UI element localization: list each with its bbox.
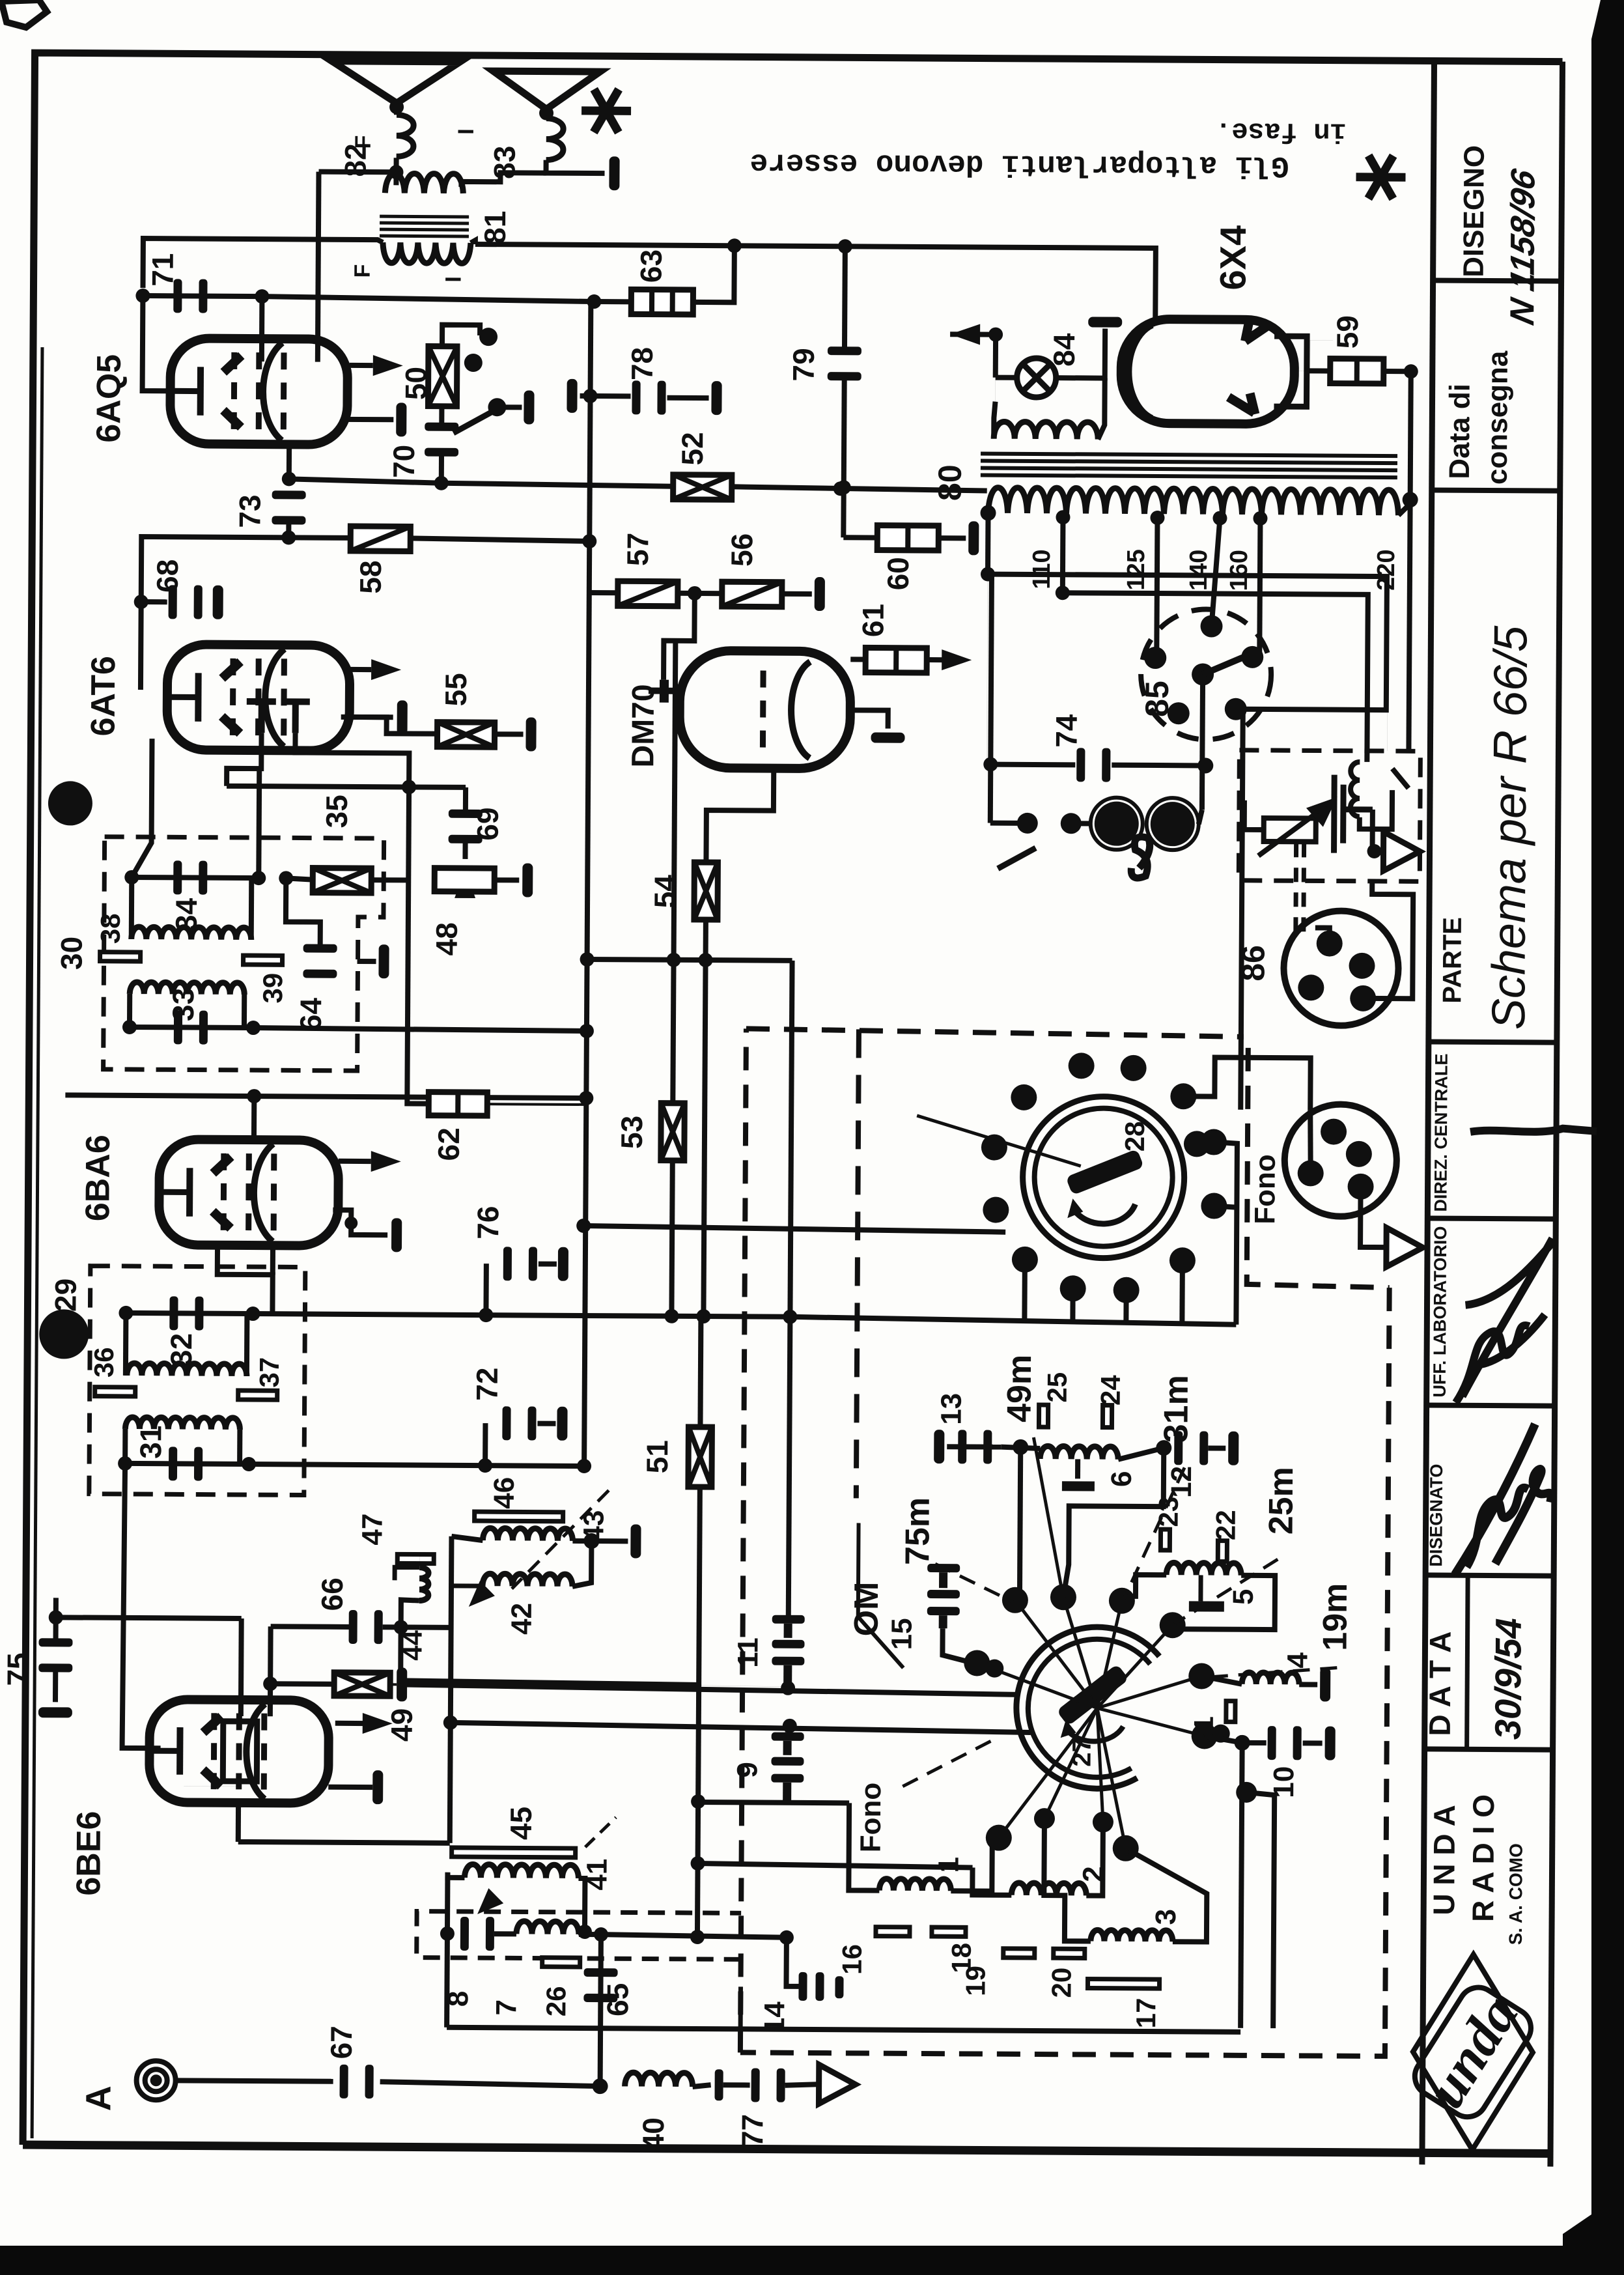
svg-text:55: 55 [439, 673, 473, 706]
voltage selector 85 [1141, 609, 1272, 740]
resistor 49 [334, 1673, 390, 1696]
wire [333, 1210, 387, 1235]
wire [141, 599, 167, 604]
mains plug pin 1 [1091, 797, 1143, 849]
svg-text:54: 54 [648, 875, 682, 909]
wire [286, 878, 321, 948]
wire [1387, 576, 1388, 751]
junction [577, 1459, 591, 1473]
wire [350, 717, 438, 734]
svg-text:58: 58 [354, 560, 387, 593]
svg-text:9: 9 [731, 1762, 763, 1778]
svg-text:73: 73 [232, 494, 266, 528]
wire [249, 1464, 584, 1466]
junction [282, 472, 296, 486]
wire tap 160 [1259, 518, 1260, 656]
capacitor 68 [169, 585, 203, 619]
svg-text:19: 19 [960, 1966, 990, 1996]
coil 5 [1166, 1562, 1241, 1576]
wire [1063, 1447, 1164, 1598]
switch 27 arrow [1066, 1726, 1123, 1742]
wire [407, 1030, 429, 1103]
svg-text:U N D A: U N D A [1427, 1805, 1461, 1915]
wire [288, 535, 350, 541]
wire [400, 1627, 700, 1685]
wire diode 1 [227, 733, 261, 786]
ground res 49 [397, 1667, 407, 1701]
socket Fono upper [1284, 1104, 1397, 1217]
inner dashed divider [856, 1029, 859, 1498]
resistor 56 [722, 582, 782, 607]
wire [994, 402, 995, 439]
wire [126, 1313, 253, 1314]
wire [463, 787, 468, 812]
coil 44 [419, 1568, 428, 1601]
resistor 63 [631, 289, 693, 315]
mains plug pin 2 [1147, 798, 1199, 850]
svg-text:75: 75 [1, 1652, 35, 1686]
contact 27 [1160, 1612, 1186, 1638]
wire [706, 768, 774, 863]
wire [539, 1262, 557, 1267]
wire [698, 1863, 973, 1867]
wire 6AQ5 plate lead [318, 172, 319, 362]
title cell divider 2 [1432, 490, 1560, 490]
wire IF29 to 6BE6 grid [122, 1463, 163, 1748]
junction [587, 294, 601, 309]
junction [1404, 364, 1418, 378]
resistor 50 [428, 346, 457, 406]
switch 27 spoke [1044, 1708, 1097, 1818]
wire antenna [176, 2080, 333, 2081]
junction [696, 1309, 710, 1323]
wire [251, 1096, 257, 1140]
ground cap 76 [558, 1247, 568, 1281]
switch 27 spoke [1097, 1708, 1205, 1736]
svg-text:42: 42 [506, 1603, 538, 1635]
slug 21 [1226, 1701, 1235, 1722]
coil 6 tap bar [1062, 1481, 1095, 1491]
resistor 62 [428, 1092, 487, 1116]
wire [371, 877, 408, 883]
wire [1240, 1743, 1242, 2028]
contact 28 [1069, 1053, 1095, 1079]
wire [600, 1934, 601, 2086]
wire AF to switch [583, 1226, 1005, 1232]
contact 27 [986, 1825, 1012, 1851]
wire [579, 1932, 601, 1937]
IF coil 33 [130, 982, 244, 995]
svg-text:23: 23 [1153, 1497, 1184, 1527]
data cell inner divider [1467, 1576, 1468, 1749]
svg-text:79: 79 [787, 348, 820, 381]
wire [495, 731, 524, 737]
svg-text:consegna: consegna [1481, 350, 1514, 485]
wire [1199, 765, 1205, 810]
resistor 51 [688, 1427, 712, 1487]
svg-text:DIREZ. CENTRALE: DIREZ. CENTRALE [1431, 1053, 1451, 1211]
wire secondary to cap 71 [143, 238, 382, 289]
svg-text:62: 62 [432, 1127, 466, 1161]
wire [1075, 1459, 1080, 1478]
svg-text:19m: 19m [1316, 1583, 1354, 1650]
wire [53, 1669, 58, 1702]
wire [942, 1628, 973, 1663]
svg-text:UFF. LABORATORIO: UFF. LABORATORIO [1430, 1226, 1451, 1397]
wire [698, 1802, 849, 1803]
wire AVC to osc grid [56, 1617, 242, 1618]
svg-text:Data di: Data di [1444, 384, 1476, 479]
tube 6AQ5 V4 [170, 338, 348, 445]
junction [134, 595, 148, 609]
svg-text:S. A. COMO: S. A. COMO [1505, 1843, 1526, 1945]
svg-text:74: 74 [1049, 714, 1083, 748]
wire [927, 657, 948, 662]
wire [782, 591, 812, 597]
ground cap 75 [38, 1707, 72, 1717]
contact 27 [1188, 1663, 1214, 1689]
pin 140 [1200, 615, 1222, 637]
svg-text:DISEGNO: DISEGNO [1458, 145, 1491, 277]
wire [268, 1626, 273, 1716]
wire diode 2 [295, 733, 409, 787]
tuning unit dashed box left [740, 1028, 746, 2052]
motor coil [1351, 751, 1409, 830]
switch 27 spoke [1015, 1600, 1098, 1708]
wire [664, 593, 695, 680]
wire [439, 454, 444, 483]
svg-text:37: 37 [254, 1357, 285, 1388]
junction speaker 1 [389, 100, 404, 114]
wire [400, 1627, 402, 1684]
wire [319, 158, 397, 173]
slug 39 [244, 955, 283, 965]
wire [1205, 1736, 1242, 1742]
title cell divider 5 [1427, 1405, 1555, 1406]
pin fono [1347, 1174, 1373, 1200]
wire [1177, 1575, 1275, 1630]
wire [1399, 500, 1410, 515]
junction [583, 389, 597, 403]
contact 27 [1113, 1835, 1139, 1861]
svg-text:75m: 75m [899, 1497, 937, 1565]
slug 16 [876, 1927, 910, 1936]
switch 27 spoke [1097, 1601, 1122, 1708]
contact 28 [1011, 1084, 1037, 1110]
wire [357, 959, 376, 964]
transformer 81 secondary [383, 242, 471, 263]
arrow 6AT6 plate [371, 659, 401, 680]
svg-text:N 1158/96: N 1158/96 [1504, 165, 1543, 328]
pointer fono [903, 1738, 995, 1787]
svg-text:22: 22 [1210, 1510, 1240, 1540]
wire [786, 1938, 787, 1981]
wire [447, 1872, 464, 1878]
contact 27 [1109, 1588, 1135, 1614]
slug 46 [475, 1512, 563, 1521]
wire [1208, 1446, 1225, 1451]
wire [123, 1313, 129, 1376]
junction [49, 1610, 63, 1624]
ground res 55 [525, 717, 536, 751]
wire [990, 821, 1019, 826]
capacitor 78 [632, 380, 665, 414]
punch hole 1 [48, 781, 92, 825]
wire [483, 1423, 488, 1465]
wire [483, 1264, 488, 1315]
capacitor 70 [425, 423, 458, 457]
svg-text:40: 40 [636, 2117, 670, 2151]
resistor 57 [618, 581, 678, 606]
wire [242, 995, 247, 1028]
svg-text:53: 53 [615, 1116, 649, 1149]
transformer 80 secondary [988, 488, 1399, 516]
pointer 49m [1033, 1437, 1063, 1594]
voice coil 83 [546, 119, 564, 160]
junction [1013, 1439, 1028, 1455]
wire to socket 86 [1367, 879, 1413, 998]
switch 27 spoke [1097, 1708, 1127, 1848]
wire [572, 1538, 591, 1544]
capacitor 33 [174, 1010, 208, 1044]
slug 23 [1160, 1529, 1169, 1550]
wire [601, 1934, 787, 1938]
pin socket 86 [1349, 953, 1375, 979]
wire [673, 641, 675, 1103]
pin [1168, 702, 1190, 724]
wire [723, 2082, 750, 2087]
svg-text:20: 20 [1046, 1968, 1076, 1998]
capacitor 76 [503, 1247, 537, 1280]
capacitor 79 [828, 346, 861, 380]
ground cathode 6AQ5 [396, 403, 406, 436]
coil 2 [1011, 1883, 1086, 1896]
asterisk note marker [1356, 156, 1405, 199]
svg-text:7: 7 [490, 1999, 522, 2016]
pointer 31m [1124, 1467, 1184, 1600]
junction [690, 1930, 705, 1944]
wire [341, 714, 393, 720]
wire [786, 1938, 798, 1986]
wire [401, 1600, 419, 1627]
contact 28 [1184, 1131, 1210, 1157]
wire stub [1179, 1260, 1185, 1324]
IF coil 34 [132, 927, 251, 940]
svg-text:66: 66 [315, 1577, 349, 1611]
IF coil 31 [125, 1417, 240, 1430]
speaker LS1 [331, 61, 460, 104]
wire switch bus [790, 1317, 1236, 1325]
coil 6 [1040, 1446, 1118, 1459]
switch 27 spoke [1063, 1597, 1098, 1708]
AC symbol [1131, 837, 1150, 878]
capacitor 32 [169, 1296, 203, 1330]
svg-text:DISEGNATO: DISEGNATO [1426, 1463, 1446, 1566]
wire [850, 710, 888, 728]
svg-text:Fono: Fono [855, 1783, 888, 1853]
arrow 6BE6 plate [363, 1713, 393, 1734]
IF transformer 30 box [104, 837, 384, 1071]
tap 160 [1253, 511, 1267, 526]
wire [394, 103, 399, 115]
junction [1235, 1735, 1250, 1751]
wire [938, 535, 966, 541]
wire [843, 535, 877, 540]
slug 18 [932, 1927, 966, 1936]
junction [281, 530, 296, 544]
junction [119, 1306, 133, 1320]
wire [589, 590, 618, 595]
wire [947, 1444, 1001, 1449]
svg-text:30/9/54: 30/9/54 [1487, 1618, 1529, 1740]
wire [697, 1316, 703, 1427]
ground switch [524, 390, 534, 424]
slug 25 [1039, 1405, 1048, 1427]
capacitor 67 [339, 2065, 373, 2098]
slug 20 [1054, 1949, 1085, 1958]
svg-text:Fono: Fono [1249, 1154, 1281, 1224]
wire [400, 1680, 788, 1686]
coil 3 [1091, 1930, 1173, 1942]
capacitor 69 [449, 810, 483, 843]
coil 42 [483, 1574, 572, 1587]
svg-text:48: 48 [430, 922, 464, 955]
tube 6BE6 V1 [149, 1699, 329, 1803]
wire [987, 574, 988, 765]
wire [848, 1803, 880, 1890]
junction [579, 1091, 593, 1105]
svg-text:46: 46 [488, 1477, 520, 1509]
slug 19 [1003, 1949, 1035, 1958]
wire mains 220 route [985, 574, 1387, 1111]
band switch 27 inner [1028, 1639, 1150, 1777]
capacitor 9 [771, 1732, 804, 1802]
ground cap 13 [934, 1430, 944, 1463]
wire [390, 1683, 397, 1686]
wire [951, 1840, 992, 1891]
coil 45 [464, 1864, 578, 1878]
svg-text:Gli altoparlanti devono essere: Gli altoparlanti devono essere [749, 145, 1289, 182]
svg-text:72: 72 [470, 1367, 504, 1400]
svg-text:59: 59 [1330, 315, 1364, 348]
slug 22 [1218, 1541, 1227, 1562]
arrow 6BA6 plate [371, 1151, 401, 1172]
osc dashed box [417, 1912, 741, 1960]
svg-text:6BE6: 6BE6 [70, 1811, 108, 1895]
svg-text:56: 56 [725, 533, 759, 567]
arrow osc trimmer [477, 1888, 503, 1914]
asterisk near speaker [581, 89, 631, 133]
wire IF gnd bus [253, 1028, 587, 1031]
capacitor 77 [751, 2068, 785, 2102]
tuning unit dashed box [746, 1028, 1241, 1039]
scanner black right band [1563, 0, 1624, 2275]
junction [251, 871, 266, 885]
svg-text:30: 30 [54, 937, 88, 970]
pin socket 86 [1350, 985, 1376, 1011]
wire [447, 1872, 447, 2028]
capacitor 74 [1076, 748, 1110, 782]
wire [587, 959, 792, 961]
junction [263, 1676, 277, 1691]
capacitor 15 [927, 1564, 960, 1628]
wire [439, 406, 444, 425]
wire RF bus upper [400, 1684, 1018, 1694]
capacitor 71 [173, 279, 207, 313]
capacitor 13 [958, 1430, 992, 1463]
wire [1245, 1792, 1274, 2028]
capacitor 11 [772, 1615, 805, 1685]
svg-text:29: 29 [48, 1279, 82, 1312]
contact 28 [983, 1197, 1009, 1223]
ground heater [1088, 317, 1122, 327]
wire [732, 487, 987, 490]
junction [1403, 492, 1418, 507]
junction [580, 1024, 594, 1038]
svg-text:6BA6: 6BA6 [79, 1135, 117, 1221]
frame bottom edge [23, 2145, 1550, 2154]
junction [837, 480, 851, 494]
wire [462, 841, 468, 859]
contact 28 [1121, 1055, 1147, 1081]
dashed link [1301, 843, 1306, 939]
wire [996, 375, 1015, 380]
pin fono [1321, 1118, 1347, 1144]
junction [242, 1457, 256, 1471]
heater winding 80 [994, 421, 1098, 439]
wire [343, 417, 393, 422]
wire [270, 1245, 275, 1275]
svg-text:Schema per R 66/5: Schema per R 66/5 [1483, 625, 1537, 1030]
wire [227, 786, 466, 787]
wire [184, 1785, 237, 1787]
svg-text:63: 63 [634, 249, 668, 283]
svg-text:78: 78 [625, 347, 659, 380]
wire [1384, 369, 1411, 374]
wire [1410, 371, 1411, 500]
junction [124, 870, 139, 884]
switch arm [453, 410, 496, 433]
title cell divider 7 [1425, 1749, 1553, 1749]
wire tap 110 route [1061, 593, 1367, 751]
transformer 80 core [981, 453, 1397, 477]
wire [785, 2084, 820, 2085]
svg-text:DM70: DM70 [626, 684, 661, 767]
wire [678, 591, 722, 596]
wire [578, 1878, 585, 1932]
capacitor 72 [502, 1406, 536, 1440]
svg-text:25: 25 [1042, 1372, 1072, 1403]
svg-text:4: 4 [1281, 1652, 1313, 1668]
svg-text:125: 125 [1123, 549, 1150, 591]
pointer 41 [585, 1817, 616, 1847]
junction [582, 534, 596, 548]
wire [671, 1161, 672, 1316]
contact 28 [1012, 1247, 1038, 1273]
svg-text:47: 47 [356, 1514, 388, 1546]
svg-text:F: F [350, 264, 375, 278]
svg-text:50: 50 [399, 367, 433, 400]
svg-text:8: 8 [442, 1991, 474, 2007]
wire [406, 1554, 419, 1567]
OM bracket [858, 1523, 904, 1667]
wire [985, 513, 991, 574]
wire [1056, 328, 1105, 378]
speaker LS2 [493, 71, 600, 109]
slug 24 [1102, 1406, 1112, 1428]
wire 220 to switch [1408, 500, 1410, 751]
wire [1299, 1682, 1317, 1687]
